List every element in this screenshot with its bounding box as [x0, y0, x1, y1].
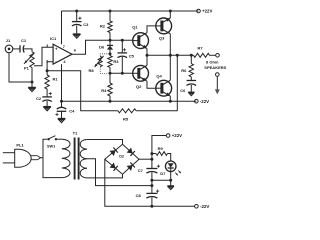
pin 2 label [46, 59, 48, 63]
junction mid rail [150, 184, 153, 187]
junction -22V rail (R4) [109, 100, 112, 103]
svg-text:8 Ohm: 8 Ohm [206, 59, 219, 64]
terminal -22V (supply) [195, 204, 210, 209]
wire J1 to C1 [13, 48, 20, 50]
resistor R7 [194, 46, 210, 58]
svg-text:Q1: Q1 [132, 25, 138, 30]
diode D6 [99, 40, 113, 54]
svg-text:J1: J1 [6, 38, 11, 43]
junction R9 tap [150, 152, 153, 155]
wire plug cord [41, 157, 44, 159]
junction C5 bottom [121, 72, 124, 75]
resistor R1 [45, 75, 58, 89]
transistor Q1 [132, 25, 148, 49]
wire C4 to ground [61, 111, 63, 118]
transistor Q3 [156, 18, 172, 41]
wire pin 7 to +22V rail [61, 11, 63, 44]
wire speaker return [216, 76, 218, 89]
wire R9 to main node [152, 153, 156, 155]
svg-text:6: 6 [74, 49, 76, 53]
wire to input ground [31, 82, 33, 87]
capacitor C8 [136, 190, 160, 199]
wire R2 to bias node [109, 33, 111, 41]
junction output rail (R6) [190, 54, 193, 57]
terminal speaker - [216, 73, 220, 77]
resistor R2 [100, 21, 112, 33]
transformer T1 secondary winding [80, 140, 87, 178]
pin 6 label [74, 49, 76, 53]
transistor Q2 [133, 65, 149, 89]
transistor Q4 [156, 73, 172, 96]
terminal +22V (supply) [166, 133, 182, 138]
junction -22V rail (C8) [150, 205, 153, 208]
bridge diode top-right [127, 148, 135, 156]
node pin2/feedback junction [46, 69, 49, 72]
wire R5 to output rail [136, 55, 177, 111]
transformer T1 core [75, 138, 79, 180]
svg-text:+22V: +22V [202, 9, 212, 14]
wire +22V rail [62, 10, 199, 12]
wire R9 to LED [168, 154, 171, 162]
capacitor C1 [20, 38, 27, 53]
wire bias top to C5 [121, 40, 123, 53]
junction tie at main vertical [150, 179, 153, 182]
svg-text:R7: R7 [198, 46, 204, 51]
connector J1 [5, 38, 13, 53]
wire C1 to P1 top [24, 49, 33, 52]
svg-text:R9: R9 [158, 146, 164, 151]
wire secondary bottom to bridge [87, 174, 123, 178]
svg-text:C8: C8 [136, 193, 142, 198]
wire IC1 output to bias line [72, 40, 110, 54]
wire P1 bottom [31, 68, 33, 83]
svg-text:3: 3 [46, 44, 48, 48]
wire LED tie to supply 0V [152, 179, 171, 181]
svg-text:PL1: PL1 [16, 143, 24, 148]
resistor R6 [181, 64, 193, 77]
wire R1 to C2 [46, 89, 48, 97]
trimmer R8 [88, 54, 110, 73]
svg-text:R8: R8 [88, 68, 94, 73]
wire P1 wiper to IC1 pin 3 [34, 47, 53, 66]
wire +22V to main node [152, 136, 166, 169]
wire bias bottom to Q2 base [110, 72, 133, 74]
svg-text:C7: C7 [138, 168, 144, 173]
svg-text:SPEAKERS: SPEAKERS [204, 65, 226, 70]
wire Q1 collector to Q3 base [147, 26, 156, 33]
LED D7 [160, 161, 181, 176]
terminal +22V (amplifier) [197, 9, 213, 14]
svg-text:R6: R6 [181, 68, 187, 73]
wire feedback pin2 run [47, 71, 118, 111]
ground (C2) [43, 107, 51, 111]
capacitor C7 [138, 165, 160, 174]
wire LED to tie node [170, 168, 172, 180]
wire Q2 emitter to Q4 base [147, 81, 156, 88]
svg-text:-22V: -22V [200, 99, 209, 104]
junction input ground node [31, 81, 34, 84]
svg-text:T1: T1 [73, 131, 78, 136]
pin 4 label [63, 60, 66, 64]
pin 7 label [63, 45, 65, 49]
ground (C4) [58, 119, 66, 123]
mains plug PL1 [3, 143, 41, 168]
wire Q3 bottom to output rail [169, 34, 171, 56]
svg-text:Q4: Q4 [156, 73, 162, 78]
wire cord to primary bottom [43, 158, 62, 178]
wire Q4 bottom to -22V rail [169, 96, 171, 101]
wire LED node to ground [170, 180, 172, 186]
bridge diode bottom-right [127, 162, 135, 170]
node A bias top (D6/R2) [109, 39, 112, 42]
capacitor C2 [36, 92, 52, 102]
wire mid rail to C8 [151, 186, 153, 194]
svg-text:R3: R3 [113, 59, 119, 64]
wire J1 shield to ground [9, 53, 32, 82]
wire secondary top to bridge [87, 140, 123, 145]
junction on +22V rail (C3) [75, 10, 78, 13]
svg-text:C4: C4 [69, 108, 75, 113]
svg-text:-22V: -22V [200, 204, 209, 209]
junction -22V rail (Q4) [169, 100, 172, 103]
wire junction to R1 [46, 71, 48, 75]
wire output rail to R6 [190, 55, 192, 63]
wire bridge + output [139, 158, 152, 160]
svg-text:C6: C6 [180, 88, 186, 93]
junction output rail (Q1/Q2) [146, 54, 149, 57]
ground (C6) [188, 92, 194, 95]
svg-text:P1: P1 [24, 66, 30, 71]
wire C2 to ground [46, 101, 48, 107]
wire node C to R4 [109, 73, 111, 83]
wire Q1 emitter to output rail [146, 49, 148, 56]
wire output rail [147, 54, 194, 56]
wire C6 to ground [190, 85, 192, 92]
pin 3 label [46, 44, 48, 48]
transformer T1 primary winding [62, 131, 78, 178]
junction on +22V rail (R2) [109, 10, 112, 13]
junction on +22V rail (Q3 collector) [169, 10, 172, 13]
junction output rail (Q3/Q4) [169, 54, 172, 57]
ground (input) [28, 87, 36, 91]
svg-text:+22V: +22V [172, 133, 182, 138]
wire -22V rail to terminal [152, 205, 195, 207]
switch SW1 [47, 136, 62, 149]
svg-text:R4: R4 [101, 88, 107, 93]
junction tie at LED [169, 179, 172, 182]
wire pin 4 to -22V rail [61, 64, 63, 101]
bridge diode bottom-left [110, 162, 118, 170]
node C (R3/R4/bias bottom) [109, 72, 112, 75]
wire Q4 top to output rail [169, 55, 171, 80]
junction bridge + node [150, 158, 153, 161]
svg-text:C1: C1 [21, 38, 27, 43]
wire rail to C4 [61, 101, 63, 108]
capacitor C5 [118, 48, 135, 58]
terminal speaker + [216, 54, 220, 58]
resistor R5 [118, 109, 136, 122]
wire -22V rail [62, 100, 197, 102]
svg-text:D6: D6 [99, 44, 105, 49]
svg-text:C3: C3 [83, 22, 89, 27]
ground (C3) [73, 34, 81, 38]
svg-text:R2: R2 [100, 24, 106, 29]
svg-text:R5: R5 [123, 117, 129, 122]
bridge diode top-left [110, 148, 118, 156]
resistor R4 [101, 83, 112, 96]
wire Q3 top to +22V rail [169, 11, 171, 18]
resistor R9 [156, 146, 168, 155]
svg-text:Q2: Q2 [136, 84, 142, 89]
wire rail to C3 [76, 11, 78, 22]
junction -22V rail (pin4/C4) [60, 100, 63, 103]
bridge rectifier D2 outline [105, 144, 139, 174]
svg-text:Q3: Q3 [159, 36, 165, 41]
wire C5 to bias bottom [121, 57, 123, 74]
ground (LED) [167, 186, 174, 190]
svg-text:C5: C5 [129, 54, 135, 59]
wire pin 2 to R1 [47, 62, 53, 71]
ground (speaker return arrow) [215, 89, 220, 94]
terminal -22V (amplifier) [195, 99, 210, 104]
svg-text:SW1: SW1 [47, 144, 55, 148]
wire C3 to ground [76, 25, 78, 34]
capacitor C4 [55, 107, 75, 116]
potentiometer P1 [24, 52, 34, 71]
wire C7 to mid rail [151, 172, 153, 185]
svg-text:D7: D7 [160, 171, 166, 176]
node B (D6/R3/R8) [109, 52, 112, 55]
resistor R3 [108, 56, 119, 68]
junction C5 top [121, 39, 124, 42]
wire bridge - output [105, 159, 152, 206]
wire R7 to terminal [210, 54, 216, 56]
svg-text:C2: C2 [36, 96, 42, 101]
wire node B to R3 [109, 54, 111, 56]
wire center tap [87, 159, 152, 186]
wire R6 to C6 [190, 77, 192, 81]
junction output rail (feedback) [176, 54, 179, 57]
wire rail to R2 [109, 11, 111, 21]
svg-text:IC1: IC1 [50, 36, 57, 41]
wire R4 to -22V rail [109, 96, 111, 101]
capacitor C6 [180, 81, 196, 93]
capacitor C3 [72, 17, 89, 27]
label speakers [204, 59, 226, 69]
svg-text:R1: R1 [53, 77, 59, 82]
wire Q2 collector to output rail [146, 55, 148, 65]
wire C8 to -22V rail [151, 197, 153, 206]
wire cord to switch [43, 139, 47, 158]
wire R3 to node C [109, 67, 111, 73]
op-amp IC1 [50, 36, 72, 64]
svg-text:7: 7 [63, 45, 65, 49]
wire bias top to Q1 base [110, 39, 133, 41]
svg-text:D2: D2 [119, 154, 124, 158]
